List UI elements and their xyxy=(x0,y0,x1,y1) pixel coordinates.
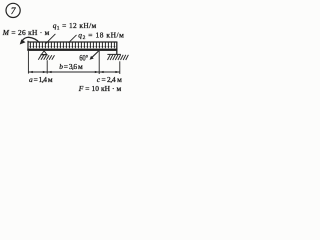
svg-text:q2 = 18 кН/м: q2 = 18 кН/м xyxy=(78,31,124,42)
svg-text:F = 10 кН · м: F = 10 кН · м xyxy=(78,84,122,93)
svg-text:M = 26 кН · м: M = 26 кН · м xyxy=(2,28,50,37)
svg-text:b = 3,6 м: b = 3,6 м xyxy=(59,62,83,71)
svg-text:a = 1,4 м: a = 1,4 м xyxy=(29,75,53,84)
svg-text:c = 2,4 м: c = 2,4 м xyxy=(97,75,122,84)
svg-text:60°: 60° xyxy=(79,54,88,63)
